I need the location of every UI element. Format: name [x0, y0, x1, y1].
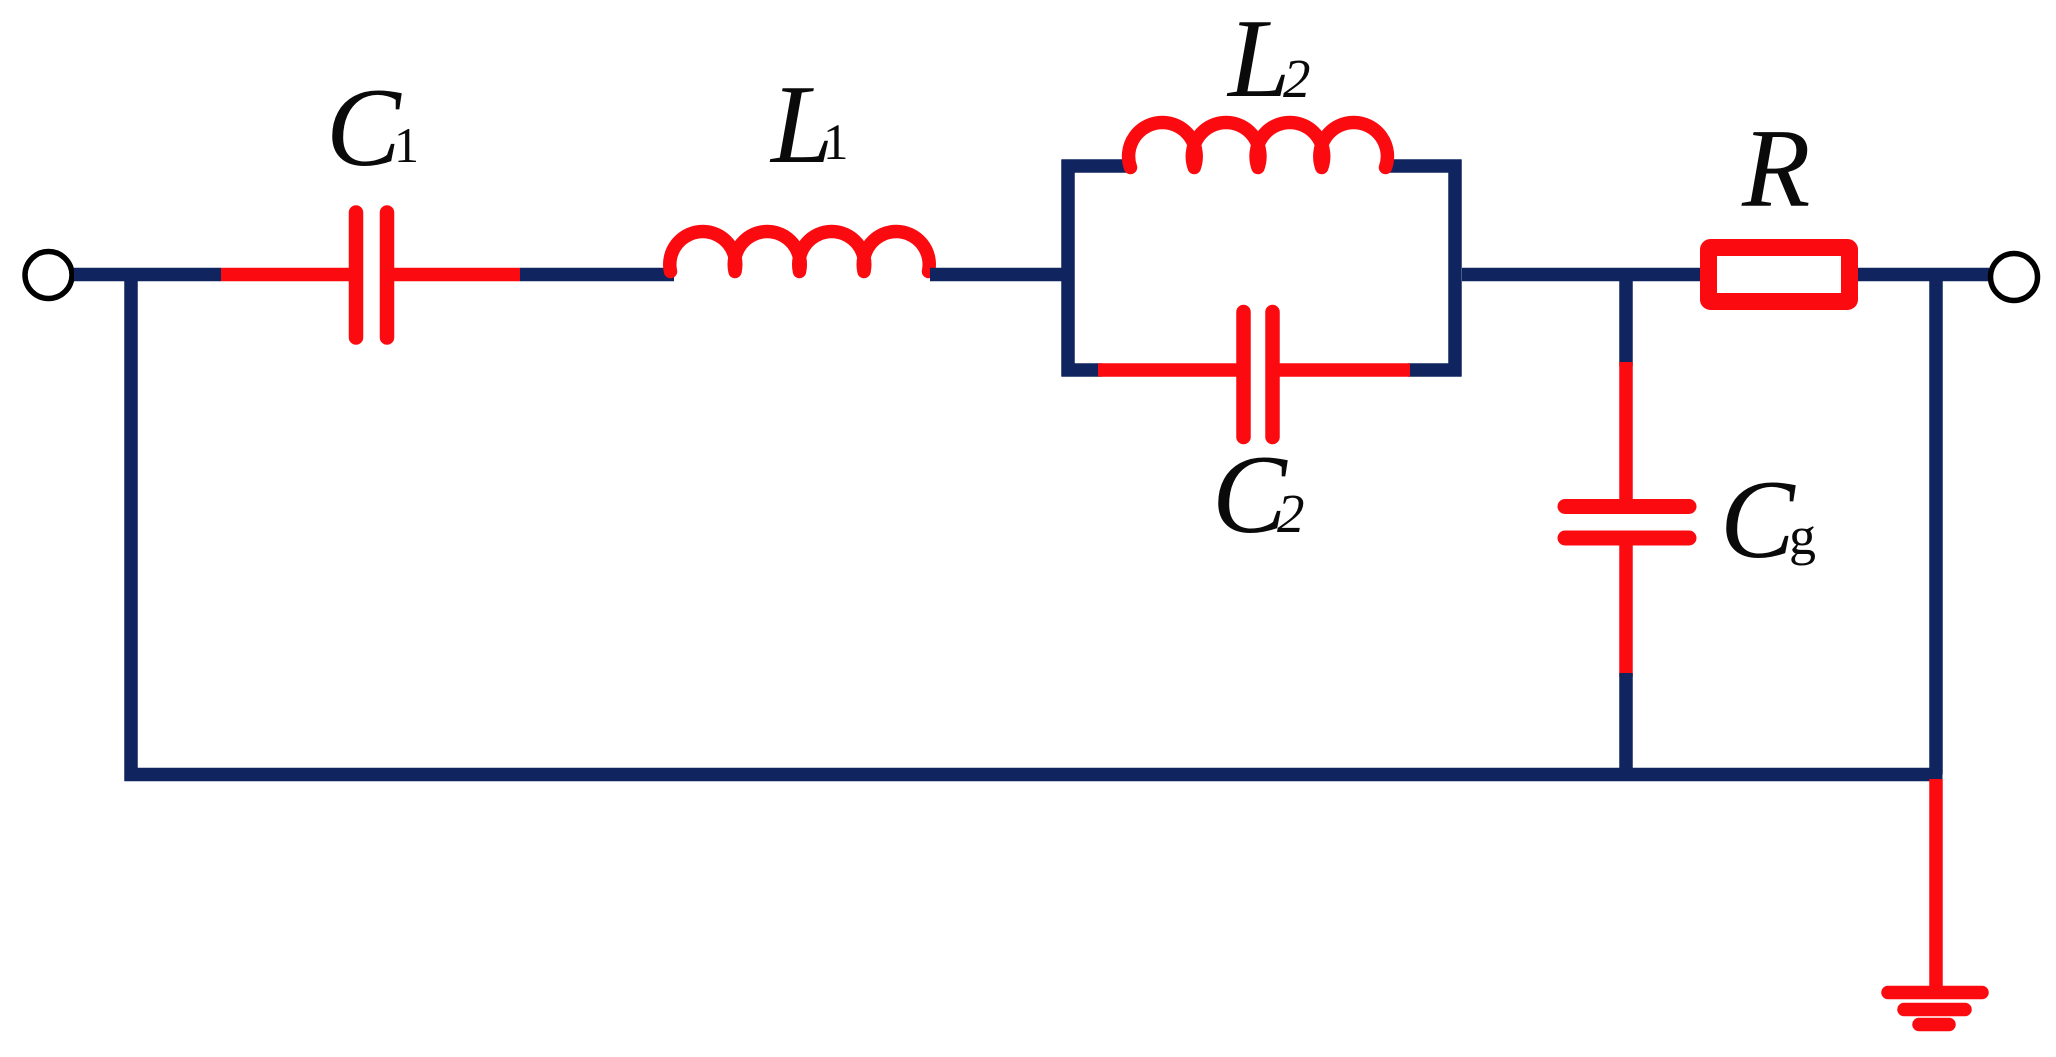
capacitor Cg plate 2	[1565, 531, 1689, 546]
node A junction: Cg branch vertical (navy upper)	[1619, 275, 1633, 367]
capacitor C1 left lead (red)	[221, 268, 350, 282]
wire: left terminal to C1 (navy)	[74, 268, 221, 282]
inductor L1	[670, 232, 930, 272]
wire: C1 to L1 (navy)	[520, 268, 674, 282]
svg-text:R: R	[1741, 107, 1810, 231]
left vertical wire	[124, 268, 138, 781]
ground bar 2	[1904, 1003, 1965, 1017]
svg-text:1: 1	[394, 117, 419, 173]
wire: tank to resistor R (navy)	[1462, 268, 1708, 282]
wire: Cg to bottom rail (navy)	[1619, 673, 1633, 774]
output vertical wire (navy)	[1929, 275, 1943, 775]
bottom return rail	[125, 768, 1943, 782]
capacitor C1 plate 1	[349, 213, 364, 338]
svg-text:2: 2	[1277, 483, 1305, 544]
capacitor C2 plate 1	[1236, 312, 1251, 437]
capacitor Cg bottom lead (red)	[1619, 538, 1633, 677]
tank frame right edge	[1448, 160, 1462, 377]
tank frame top edge stubs	[1062, 159, 1462, 173]
input terminal (left)	[25, 252, 72, 299]
inductor L2	[1129, 122, 1388, 167]
svg-text:C: C	[326, 66, 402, 190]
svg-text:L: L	[1226, 0, 1290, 121]
svg-text:g: g	[1789, 506, 1816, 566]
capacitor C2 plate 2	[1265, 312, 1280, 437]
capacitor Cg plate 1	[1565, 499, 1689, 514]
svg-text:1: 1	[823, 115, 849, 171]
wire: L1 to tank (navy)	[930, 268, 1062, 282]
ground lead (red)	[1929, 779, 1943, 988]
wire: R to output terminal (navy)	[1858, 268, 1989, 282]
capacitor C2 right lead (red)	[1279, 363, 1410, 377]
output terminal (right)	[1991, 254, 2038, 301]
ground bar 1	[1888, 986, 1982, 1000]
capacitor C2 left lead (red)	[1098, 363, 1237, 377]
capacitor C1 plate 2	[380, 213, 395, 338]
tank frame left edge	[1061, 160, 1075, 377]
svg-text:C: C	[1720, 458, 1796, 582]
resistor R	[1709, 248, 1850, 302]
ground bar 3	[1919, 1018, 1949, 1032]
capacitor C1 right lead (red)	[394, 268, 520, 282]
capacitor Cg top lead (red)	[1619, 362, 1633, 506]
tank frame bottom edge stubs	[1062, 363, 1462, 377]
svg-text:2: 2	[1283, 48, 1311, 109]
